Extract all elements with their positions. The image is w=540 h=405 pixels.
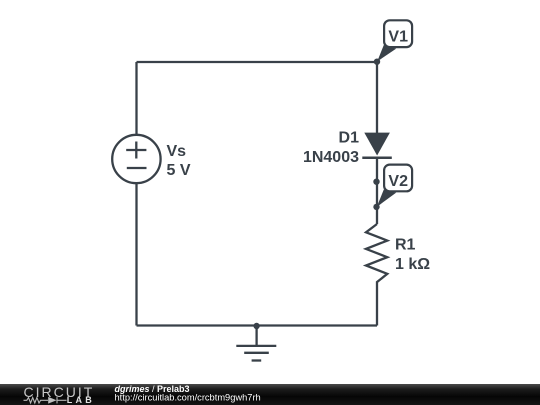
svg-text:V1: V1: [388, 29, 408, 46]
svg-text:V2: V2: [388, 173, 408, 190]
svg-text:LAB: LAB: [67, 395, 95, 405]
svg-text:D1: D1: [339, 130, 360, 147]
svg-text:5 V: 5 V: [167, 162, 191, 179]
svg-text:R1: R1: [395, 237, 416, 254]
svg-text:1N4003: 1N4003: [303, 149, 359, 166]
svg-text:Vs: Vs: [167, 143, 187, 160]
svg-text:1 kΩ: 1 kΩ: [395, 256, 430, 273]
svg-text:http://circuitlab.com/crcbtm9g: http://circuitlab.com/crcbtm9gwh7rh: [115, 393, 261, 403]
